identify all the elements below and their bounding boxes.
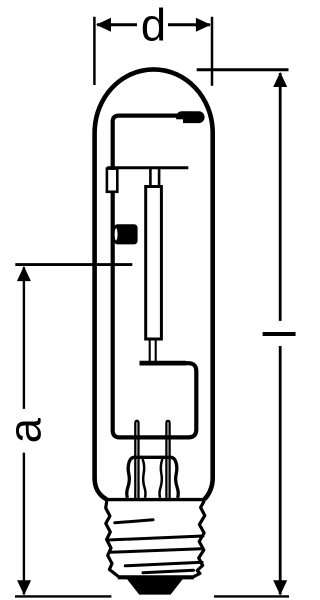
stem arch with pinch sides (127, 457, 178, 498)
getter white sliver (115, 228, 118, 240)
base thread line 2 (108, 536, 203, 540)
dim d extension right (211, 17, 214, 86)
dim l line upper (279, 73, 282, 321)
dim d arrow left (96, 18, 111, 32)
base contact tip (126, 578, 183, 594)
label d (143, 8, 163, 41)
baseline left segment (15, 595, 111, 597)
white support clip (107, 169, 117, 192)
bulb envelope outline (95, 69, 213, 499)
base top line (105, 498, 205, 501)
getter square (114, 224, 138, 244)
dim a line upper (23, 267, 25, 409)
stem pinch left inner (143, 459, 146, 498)
dim a arrow down (17, 580, 31, 595)
white notch under blob (177, 119, 184, 124)
base thread line 1 (115, 520, 153, 523)
dim l top extension (197, 68, 289, 71)
arc tube body (146, 187, 162, 340)
arc tube foot bar (140, 361, 187, 366)
lead wire left (135, 421, 138, 499)
label l (263, 332, 296, 336)
dim d shaft left (97, 23, 137, 26)
screw base outline (106, 501, 205, 577)
baseline right segment (214, 595, 289, 597)
base bottom edge (118, 576, 194, 579)
frame wire (113, 116, 197, 438)
arc tube bottom neck (150, 339, 156, 361)
dim l arrow down (273, 580, 287, 595)
arc tube top neck (150, 169, 159, 187)
base thread line 3 (110, 549, 202, 553)
dim a arrow up (17, 266, 31, 281)
frame wire end clip blob (176, 111, 205, 123)
stem pinch right inner (160, 459, 163, 498)
dim d arrow right (196, 18, 211, 32)
base thread line 5 (143, 570, 194, 573)
dim l arrow up (273, 72, 287, 87)
dim l line lower (279, 346, 282, 595)
dim d extension left (93, 17, 96, 85)
bridge support line (107, 166, 188, 169)
dim a line lower (23, 453, 25, 595)
base thread line 4 (125, 562, 202, 566)
dim d shaft right (168, 23, 210, 26)
label a (16, 418, 41, 441)
dim a top extension (15, 263, 132, 266)
lead wire right (166, 421, 169, 499)
